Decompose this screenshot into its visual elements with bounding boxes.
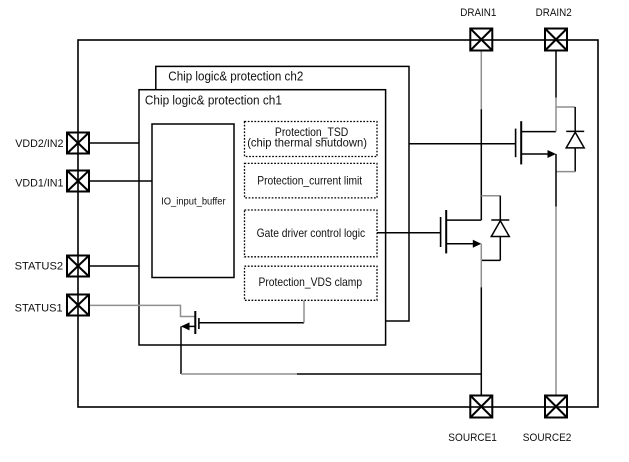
wire M1 gate from Gate driver box [377,232,441,234]
wire D1 cathode branch (gray) [481,195,500,197]
wire source1 net horizontal (gray part) [181,373,297,375]
wire D2 anode branch (gray) [556,171,575,173]
block Chip logic & protection ch2 [156,66,409,321]
block Gate driver control logic [245,210,378,257]
pad STATUS2 [67,256,89,277]
wire SOURCE1 net down to pad (black segment) [480,287,482,396]
pad VDD2/IN2 [67,133,89,154]
wire SOURCE2 net down to pad (gray segment) [555,207,557,397]
svg-text:Gate driver control logic: Gate driver control logic [257,226,366,240]
svg-text:IO_input_buffer: IO_input_buffer [161,196,226,208]
svg-text:(chip thermal shutdown): (chip thermal shutdown) [247,136,367,150]
wire SOURCE2 net down (black segment) [555,154,557,207]
svg-text:SOURCE2: SOURCE2 [523,432,572,444]
wire DRAIN1 pad down (gray segment) [480,51,482,110]
diode D2 (body diode ch2) [566,107,584,172]
pad VDD1/IN1 [67,171,89,192]
wire Q1 gate to Protection_VDS clamp [199,322,304,324]
pad SOURCE2 [545,396,567,418]
pad DRAIN1 [470,29,492,51]
wire STATUS1 net (gray) [89,305,195,316]
wire Q1 source down [180,326,182,374]
svg-text:SOURCE1: SOURCE1 [448,432,497,444]
outer chip boundary [78,40,598,407]
wire DRAIN2 down to M2 drain (gray segment) [555,98,557,132]
wire SOURCE1 net down (gray segment) [480,244,482,288]
svg-text:Chip logic& protection ch2: Chip logic& protection ch2 [168,69,303,84]
svg-text:Protection_VDS clamp: Protection_VDS clamp [259,275,363,289]
svg-text:VDD2/IN2: VDD2/IN2 [15,138,63,150]
block Chip logic & protection ch1 [139,90,386,345]
pad SOURCE1 [470,396,492,418]
pad DRAIN2 [545,29,567,51]
block Protection_VDS clamp [245,266,378,300]
transistor M2 (power MOSFET ch2) [516,121,556,164]
svg-text:DRAIN2: DRAIN2 [536,7,572,19]
diode D1 (body diode ch1) [481,196,509,261]
svg-text:VDD1/IN1: VDD1/IN1 [15,178,63,190]
block Protection_current limit [245,163,378,198]
wire DRAIN2 pad down (black segment) [555,51,557,98]
svg-text:STATUS1: STATUS1 [15,302,63,314]
wire D2 cathode branch (gray) [556,106,575,108]
block Protection_TSD [245,122,378,157]
wire VDS clamp to gate node (gray) [303,300,305,322]
wire source1 net horizontal (black part) [297,373,481,375]
svg-text:Protection_current limit: Protection_current limit [257,173,362,187]
block IO_input_buffer U1 [152,124,234,278]
wire VDD2/IN2 to ch1 [89,142,139,144]
transistor Q1 (status FET, mirrored) [181,311,199,334]
wire M2 gate from ch2 edge [409,143,516,145]
svg-text:Chip logic& protection ch1: Chip logic& protection ch1 [145,92,282,107]
svg-text:STATUS2: STATUS2 [15,261,64,273]
wire VDD1/IN1 to IO_input_buffer [89,180,152,182]
svg-text:DRAIN1: DRAIN1 [460,7,496,19]
wire STATUS2 to ch1 [89,265,139,267]
transistor M1 (power MOSFET ch1) [441,210,482,253]
wire DRAIN1 down to M1 drain (black segment) [480,109,482,220]
pad STATUS1 [67,295,89,316]
